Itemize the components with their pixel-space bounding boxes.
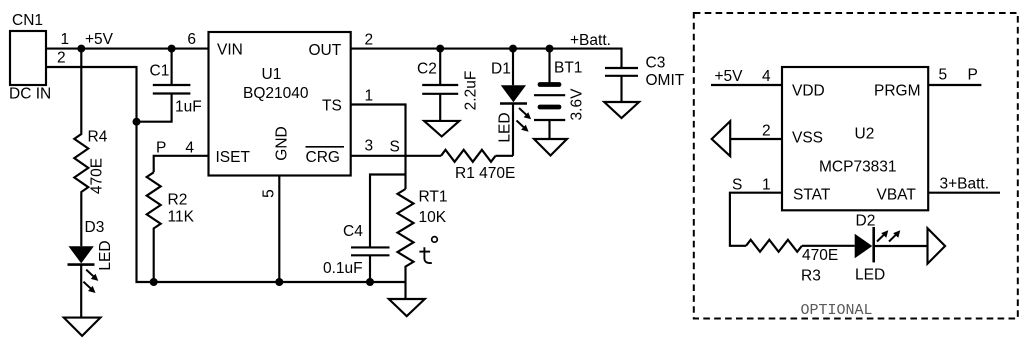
capacitor C1 [137, 49, 191, 122]
svg-text:1: 1 [365, 88, 374, 105]
svg-text:5: 5 [939, 67, 948, 84]
wire PRGM [928, 84, 981, 86]
svg-text:R2: R2 [168, 192, 188, 209]
svg-text:U1: U1 [262, 66, 282, 83]
wire R3 to D2 [802, 245, 855, 247]
IC U1 [209, 32, 351, 176]
svg-text:ISET: ISET [216, 149, 251, 166]
wire STAT [730, 193, 782, 246]
IC U2 [782, 67, 928, 210]
svg-text:470E: 470E [802, 247, 838, 264]
svg-text:MCP73831: MCP73831 [819, 159, 897, 176]
svg-text:3.6V: 3.6V [569, 88, 586, 121]
junction R2/rail [150, 278, 158, 286]
ground (D3) [64, 318, 101, 336]
svg-text:6: 6 [187, 31, 196, 48]
svg-text:1: 1 [762, 177, 771, 194]
wire ISET [154, 156, 209, 173]
ground (BT1) [534, 139, 567, 156]
svg-text:P: P [156, 140, 166, 157]
ground (main rail) [389, 299, 425, 316]
svg-text:GND: GND [274, 126, 291, 160]
wire VDD [711, 84, 782, 86]
junction +5V/C1 [168, 45, 176, 53]
svg-text:C4: C4 [343, 223, 363, 240]
junction OUT/D1 [509, 45, 517, 53]
svg-text:2.2uF: 2.2uF [463, 71, 480, 111]
wire VBAT [928, 192, 1000, 194]
svg-text:+5V: +5V [715, 68, 744, 85]
svg-text:OUT: OUT [309, 42, 342, 59]
wire VSS [730, 138, 782, 140]
svg-text:S: S [732, 177, 742, 194]
svg-text:0.1uF: 0.1uF [323, 260, 363, 277]
junction C4/rail [366, 278, 374, 286]
svg-text:STAT: STAT [793, 187, 831, 204]
VSS arrow [712, 121, 731, 156]
svg-text:C2: C2 [417, 61, 437, 78]
resistor R4 [74, 49, 88, 247]
svg-text:CN1: CN1 [12, 12, 43, 29]
capacitor C2 [422, 49, 458, 121]
svg-text:U2: U2 [855, 126, 875, 143]
junction C1/ground line [133, 118, 141, 126]
svg-text:VBAT: VBAT [877, 187, 917, 204]
svg-text:2: 2 [365, 32, 374, 49]
svg-text:5: 5 [261, 189, 278, 198]
svg-text:VIN: VIN [217, 42, 243, 59]
junction OUT/BT1 [546, 45, 554, 53]
wire CRG/S net [351, 155, 441, 157]
svg-text:11K: 11K [168, 209, 195, 226]
svg-text:LED: LED [497, 112, 514, 142]
arrows D3 [83, 270, 98, 293]
wire GND pin 5 [278, 176, 280, 283]
svg-text:LED: LED [97, 240, 114, 270]
LED D1 [500, 49, 527, 156]
wire OUT / +Batt. [351, 49, 622, 68]
svg-text:VDD: VDD [792, 83, 825, 100]
svg-text:OPTIONAL: OPTIONAL [801, 302, 873, 319]
svg-text:CRG: CRG [306, 149, 340, 166]
thermistor RT1 [398, 189, 414, 299]
output arrow (to battery) [928, 228, 946, 264]
svg-text:PRGM: PRGM [874, 83, 921, 100]
capacitor C4 [351, 175, 406, 283]
svg-text:S: S [390, 139, 400, 156]
svg-text:VSS: VSS [792, 130, 823, 147]
svg-text:4: 4 [185, 140, 194, 157]
LED D3 [68, 246, 95, 317]
svg-text:OMIT: OMIT [646, 72, 685, 89]
svg-text:TS: TS [322, 98, 342, 115]
svg-text:C1: C1 [150, 63, 170, 80]
svg-text:D3: D3 [85, 219, 105, 236]
svg-text:+Batt.: +Batt. [570, 32, 611, 49]
optional boundary (dashed box) [694, 13, 1018, 319]
resistor R1 [441, 150, 496, 162]
svg-text:BT1: BT1 [554, 60, 582, 77]
svg-text:3+Batt.: 3+Batt. [940, 176, 990, 193]
svg-text:1: 1 [61, 31, 70, 48]
svg-text:C3: C3 [646, 55, 666, 72]
svg-text:R3: R3 [801, 268, 821, 285]
junction OUT/C2 [436, 45, 444, 53]
junction pin5/rail [275, 278, 283, 286]
ground (C2) [424, 121, 459, 137]
svg-text:R4: R4 [88, 129, 108, 146]
svg-text:D2: D2 [856, 213, 876, 230]
temperature symbol t [419, 237, 437, 263]
svg-text:1uF: 1uF [175, 99, 202, 116]
svg-text:RT1: RT1 [419, 189, 448, 206]
wire +5V rail [46, 48, 209, 50]
wire DC return / ground rail [46, 67, 406, 282]
svg-text:DC IN: DC IN [9, 86, 51, 103]
wire TS (pin 1) [351, 105, 406, 190]
svg-text:BQ21040: BQ21040 [243, 85, 309, 102]
svg-text:+5V: +5V [85, 31, 114, 48]
svg-text:3: 3 [365, 138, 374, 155]
arrows D1 [517, 108, 532, 132]
svg-text:2: 2 [762, 123, 771, 140]
battery BT1 [534, 49, 565, 139]
svg-text:10K: 10K [419, 209, 447, 226]
resistor R3 [746, 240, 802, 252]
connector CN1 [10, 31, 46, 85]
ground (C3) [604, 102, 639, 118]
svg-text:4: 4 [762, 68, 771, 85]
svg-text:2: 2 [57, 50, 66, 67]
arrows D2 [877, 230, 900, 241]
wire R1 to D1 [496, 155, 514, 157]
resistor R2 [147, 172, 161, 282]
junction +5V/R4 [77, 45, 85, 53]
svg-text:LED: LED [855, 267, 885, 284]
svg-text:P: P [968, 67, 978, 84]
LED D2 [855, 227, 928, 262]
svg-text:R1 470E: R1 470E [455, 165, 515, 182]
svg-text:470E: 470E [89, 158, 106, 194]
svg-text:D1: D1 [491, 61, 511, 78]
capacitor C3 [605, 68, 638, 102]
